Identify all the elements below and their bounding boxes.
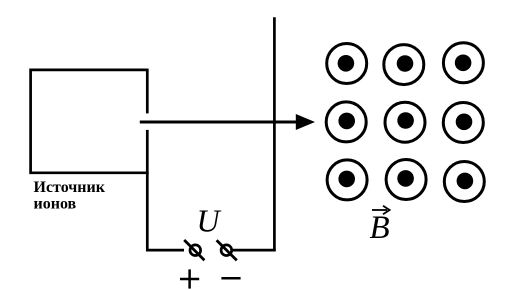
- wire: from box bottom down and right to left terminal: [147, 173, 184, 250]
- svg-text:ионов: ионов: [34, 195, 77, 212]
- minus sign: [221, 277, 240, 280]
- screen / boundary vertical line: [273, 17, 276, 251]
- terminal circle left: [190, 245, 201, 256]
- svg-text:U: U: [197, 203, 222, 239]
- wire: bottom right segment from boundary to right terminal: [233, 249, 276, 252]
- B field dot row 2 col 3: [443, 103, 483, 143]
- plus sign: [180, 269, 199, 288]
- B field dot row 2 col 1: [326, 102, 366, 142]
- ion source box: [31, 70, 149, 173]
- ion beam arrow shaft: [140, 121, 298, 124]
- B field dot row 1 col 2: [384, 45, 424, 85]
- B field dot row 3 col 2: [386, 160, 426, 200]
- label: Источник ионов: [34, 179, 106, 212]
- svg-text:Источник: Источник: [34, 179, 106, 196]
- B field dot row 1 col 1: [327, 44, 367, 84]
- B field dot row 2 col 2: [385, 102, 425, 142]
- ion source box right plate upper segment: [146, 69, 149, 114]
- B field dot row 3 col 3: [444, 162, 484, 202]
- terminal slash left: [184, 240, 204, 260]
- B field dot row 1 col 3: [443, 43, 483, 83]
- B field dot row 3 col 1: [327, 160, 367, 200]
- vector arrow over B: [372, 206, 390, 215]
- terminal slash right: [217, 240, 237, 260]
- svg-text:B: B: [370, 210, 390, 246]
- ion beam arrowhead: [296, 114, 315, 130]
- terminal circle right: [221, 245, 232, 256]
- ion source box right plate lower segment: [146, 130, 149, 174]
